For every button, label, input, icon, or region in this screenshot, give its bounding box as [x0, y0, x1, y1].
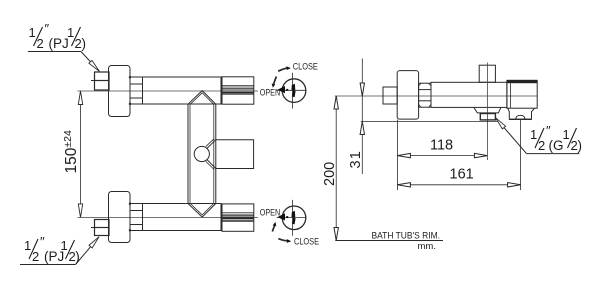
svg-text:mm.: mm.: [418, 241, 436, 252]
svg-text:): ): [82, 36, 87, 51]
svg-text:2: 2: [538, 138, 545, 153]
handle top (knurled): [222, 77, 254, 104]
handle icon top: [277, 73, 307, 109]
svg-text:″: ″: [45, 21, 50, 36]
svg-text:OPEN: OPEN: [260, 208, 281, 219]
text 1/2"(G1/2) right: [530, 123, 582, 153]
svg-text:1: 1: [24, 238, 31, 253]
faucet axis centerline: [335, 95, 537, 97]
leader + label top PJ1/2: [28, 52, 100, 72]
dimension 31: [360, 59, 500, 175]
svg-text:): ): [578, 138, 583, 153]
CLOSE arrow bottom: [278, 239, 291, 243]
vertical connecting body: [188, 104, 216, 203]
handle bottom (knurled): [222, 204, 254, 231]
valve body tube bottom: [143, 204, 222, 231]
svg-text:2: 2: [32, 249, 39, 264]
wall flange side: [397, 71, 418, 120]
OPEN arrow top: [272, 77, 277, 88]
svg-text:″: ″: [40, 234, 45, 249]
svg-text:(G: (G: [549, 138, 564, 153]
V joint bottom: [188, 204, 216, 218]
valve body tube top: [143, 77, 222, 104]
svg-text:CLOSE: CLOSE: [293, 61, 318, 72]
svg-text:1: 1: [67, 25, 74, 40]
wall thread stub: [383, 87, 397, 104]
bottom outlet nut G1/2: [480, 114, 495, 120]
main body side: [431, 82, 507, 107]
svg-text:): ): [75, 249, 80, 264]
text 1/2"(PJ1/2) top: [29, 21, 87, 51]
centerline top valve axis: [78, 90, 259, 92]
svg-text:118: 118: [430, 138, 453, 154]
svg-text:2: 2: [37, 36, 44, 51]
svg-text:CLOSE: CLOSE: [294, 236, 319, 247]
bonnet hex bottom: [129, 203, 143, 232]
handle icon bottom: [277, 200, 307, 236]
spout (front view): [206, 139, 254, 170]
union nut N1 (top PJ1/2): [95, 72, 110, 90]
spout pivot boss circle: [194, 146, 209, 161]
svg-text:1: 1: [530, 127, 537, 142]
dimension 118: [397, 120, 487, 191]
svg-text:OPEN: OPEN: [260, 87, 281, 98]
spout tip outlet: [508, 108, 535, 119]
svg-text:200: 200: [322, 162, 338, 186]
PJ thread stub bottom: [91, 227, 95, 229]
svg-text:150±24: 150±24: [62, 130, 80, 173]
union nut N2 (bottom PJ1/2): [95, 220, 110, 236]
bonnet hex top: [129, 76, 143, 105]
PJ thread stub top: [91, 80, 95, 82]
OPEN arrow bottom: [272, 222, 276, 232]
bottom outlet transition: [474, 107, 501, 113]
svg-text:1: 1: [61, 238, 68, 253]
spout block: [507, 80, 537, 108]
wall flange top: [109, 66, 131, 117]
svg-text:1: 1: [563, 127, 570, 142]
wall flange bottom: [109, 192, 131, 243]
svg-text:161: 161: [450, 166, 474, 182]
CLOSE arrow top: [278, 66, 291, 71]
stem/outlet centerline: [486, 63, 488, 161]
centerline bottom valve axis: [78, 216, 259, 218]
dimension 150±24: [78, 91, 82, 217]
svg-text:1: 1: [29, 25, 36, 40]
text 1/2"(PJ1/2) bottom: [24, 234, 80, 264]
dimension 161: [397, 119, 520, 190]
dimension 200: [334, 96, 338, 241]
hex nut side: [419, 83, 431, 107]
bath tub rim line: [335, 240, 443, 242]
V joint top: [188, 91, 216, 105]
handle stem square: [479, 65, 495, 82]
svg-text:31: 31: [348, 150, 364, 169]
svg-text:″: ″: [546, 123, 551, 138]
svg-text:(PJ: (PJ: [49, 36, 69, 51]
leader + label bottom PJ1/2: [20, 237, 99, 265]
leader + label G1/2: [496, 118, 580, 154]
